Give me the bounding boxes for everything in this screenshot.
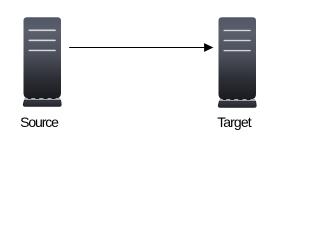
- label Source: [20, 115, 58, 130]
- Source vent slot 1: [29, 29, 56, 31]
- Source base plinth: [23, 100, 61, 107]
- Source tower body: [24, 18, 61, 98]
- arrow Source to Target: [69, 43, 213, 52]
- Target tower body: [219, 18, 256, 99]
- Target vent slot 1: [224, 30, 251, 32]
- Target vent slot 2: [224, 40, 251, 42]
- arrowhead: [204, 43, 213, 52]
- Target base feet tabs: [223, 99, 226, 100]
- arrow shaft: [69, 47, 204, 48]
- label Target: [217, 115, 251, 130]
- server tower: Source: [23, 18, 61, 107]
- server tower: Target: [218, 18, 256, 108]
- Source base feet tabs: [28, 98, 31, 99]
- Target vent slot 3: [224, 50, 251, 52]
- Target base plinth: [218, 101, 256, 108]
- Source vent slot 3: [29, 50, 56, 52]
- Target base top highlight: [219, 99, 255, 101]
- Source base top highlight: [24, 98, 60, 100]
- Source vent slot 2: [29, 40, 56, 42]
